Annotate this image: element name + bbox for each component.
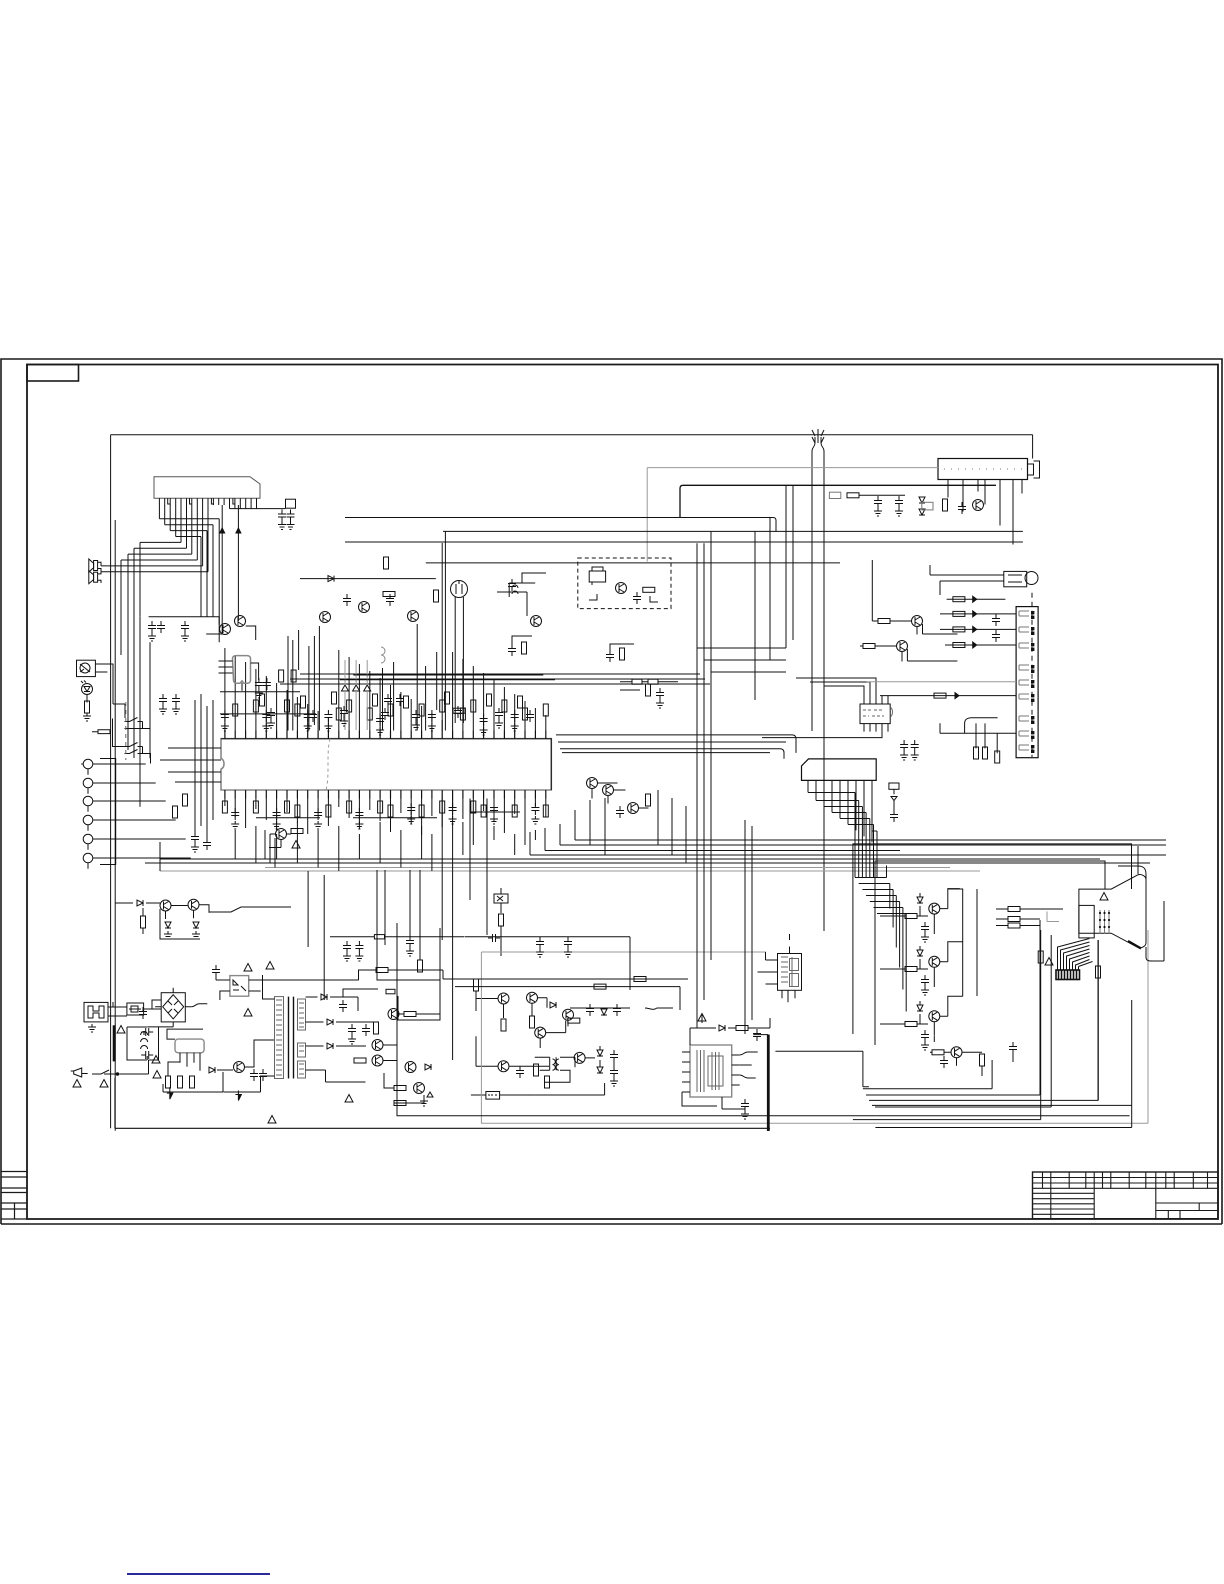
transistor Q311 [897, 641, 908, 652]
wire bus dark right low [875, 1105, 1131, 1127]
transistor Q310 [912, 616, 923, 627]
ground [343, 953, 351, 961]
transistor Q405 [498, 993, 509, 1004]
resistor R408 [568, 1018, 580, 1023]
ground [172, 706, 180, 714]
transistor Q201 [973, 500, 984, 511]
wire [1031, 716, 1034, 719]
resistor R911 [178, 1076, 183, 1088]
ground [348, 1036, 356, 1044]
diode D408 [597, 1067, 603, 1073]
capacitor [511, 710, 519, 722]
transistor Q407 [563, 1009, 574, 1020]
flyback pins [782, 990, 795, 1002]
wire bus rows to CN302 [556, 735, 796, 759]
flyback T902 body [778, 954, 802, 991]
transistor Q204 [359, 602, 370, 613]
wire Q311 [860, 646, 957, 662]
wire [1019, 716, 1029, 721]
speaker SP1 terminals [98, 562, 101, 572]
small box SAW [922, 502, 933, 510]
capacitor C406 [586, 1004, 594, 1016]
wire sound row [465, 937, 630, 990]
diode D301 [165, 922, 171, 928]
zener ZD401 box [494, 894, 508, 903]
ground [376, 727, 384, 735]
ground [159, 706, 167, 714]
diode D303 [137, 900, 143, 906]
capacitor [221, 710, 229, 722]
resistor [460, 708, 465, 720]
wire horizontals midband [220, 675, 555, 714]
capacitor Ca2 [309, 710, 317, 722]
capacitor Ca7 [495, 708, 503, 720]
capacitor C410 [610, 1066, 618, 1078]
ground [449, 816, 457, 824]
capacitor CR [921, 922, 929, 934]
wire long left vertical A [110, 435, 112, 1129]
transistor Q205 [320, 612, 331, 623]
wire bus y517 [345, 518, 776, 532]
resistor R101 [85, 701, 90, 713]
capacitor C905 [212, 965, 220, 977]
RCA jack J6 [83, 853, 93, 863]
battery detail [488, 1094, 497, 1096]
transistor Q901 [234, 1062, 245, 1073]
wire [1031, 632, 1034, 635]
wire supply to small box [230, 508, 286, 510]
vertical trunk x445 [444, 531, 446, 730]
resistor [388, 704, 393, 716]
junction arrow [973, 626, 977, 632]
wire pin rail C [470, 811, 520, 813]
socket teeth [1058, 967, 1079, 971]
wire [1031, 721, 1034, 724]
diode D407 [597, 1050, 603, 1056]
capacitor Ca8 [526, 710, 534, 722]
wire loop vertical stage A [377, 928, 440, 980]
resistor Rl2 [173, 806, 178, 818]
diode D202 [919, 509, 925, 515]
ground [921, 934, 929, 942]
speaker SP2 cone [89, 571, 94, 584]
RCA jack J1 stub [81, 764, 116, 775]
resistor [253, 801, 258, 813]
dashed box VIF [578, 558, 671, 609]
transformer primary wires [224, 975, 275, 1092]
junction arrow [955, 693, 959, 699]
RGB transistor QR [929, 903, 940, 914]
spark gap box [889, 783, 899, 789]
resistor Rb2 [620, 648, 625, 660]
wire to right [388, 970, 443, 979]
transistor Q206 [408, 611, 419, 622]
resistor RG [905, 967, 917, 972]
resistor Ra1 [260, 694, 265, 706]
small box IF input [829, 492, 840, 498]
ground [164, 931, 172, 939]
wire nest verticals [1041, 930, 1098, 1120]
capacitor Ca1 [267, 708, 275, 720]
line filter T901 winding [141, 1032, 148, 1050]
row y613 [940, 613, 1016, 615]
capacitor Cb2 [606, 650, 614, 662]
resistor R317 [953, 627, 965, 632]
LED wire [86, 695, 88, 703]
wire drops below bus [575, 798, 605, 855]
wire flyback top dashes [789, 934, 791, 954]
wire secondary rails [384, 1073, 424, 1103]
resistor-cap row y599 [947, 598, 1006, 600]
LED D221 [342, 685, 349, 691]
secondary wires top [306, 989, 379, 1011]
ground [420, 1098, 428, 1106]
warning triangle [345, 1095, 353, 1103]
wire sparkgap [893, 801, 895, 811]
vertical trunk x442 [441, 543, 443, 731]
wire [1031, 685, 1034, 688]
ground [536, 949, 544, 957]
ground [148, 633, 156, 641]
wire [497, 592, 527, 616]
tuner TU101 [938, 459, 1028, 480]
resistor R920 [394, 1101, 406, 1106]
diode D915 [425, 1064, 431, 1070]
ground [287, 522, 295, 530]
diode D405 [550, 1002, 556, 1008]
transistor Q121 [220, 624, 231, 635]
warning triangle [1045, 958, 1053, 966]
RCA jack J4 stub [88, 820, 116, 831]
resistor [253, 700, 258, 712]
ground [480, 727, 488, 735]
transistor Q408 [535, 1027, 546, 1038]
capacitor C601 [741, 1099, 749, 1111]
resistor R931 [594, 984, 606, 989]
bridge diamond [163, 995, 184, 1019]
footer link line [127, 1573, 270, 1575]
resistor R950 [932, 1050, 944, 1055]
resistor [326, 805, 331, 817]
ground [355, 953, 363, 961]
resistor R201 [847, 493, 859, 498]
staircase horizontals [101, 519, 219, 572]
resistor Rv [1038, 951, 1043, 963]
capacitor [262, 710, 270, 722]
CRT deflection stroke [1128, 941, 1141, 949]
wire IF out loop [680, 485, 996, 517]
IR receiver lens [80, 663, 90, 673]
SAW filter SF201 [233, 656, 251, 684]
resistor [233, 704, 238, 716]
arrow marker [92, 730, 110, 734]
capacitor C951 [1009, 1042, 1017, 1054]
wire [1031, 643, 1034, 646]
ground [407, 816, 415, 824]
switch wires [113, 664, 151, 764]
junction dots [116, 1073, 119, 1076]
resistor Ra8 [518, 696, 523, 708]
wire to transformer [217, 1040, 274, 1070]
capacitor C318 [900, 740, 908, 752]
long bus below IC 1 [575, 839, 1166, 841]
transformer core [289, 997, 294, 1079]
wire verticals midband [288, 624, 437, 731]
ground [314, 821, 322, 829]
diode DR [917, 897, 923, 903]
capacitor [314, 808, 322, 820]
resistor [481, 805, 486, 817]
node arrow down wire A [222, 505, 238, 624]
sound transformer T401 [550, 1057, 559, 1070]
resistor [222, 801, 227, 813]
ground [741, 1111, 749, 1119]
secondary diode D910 [321, 994, 327, 1000]
resistor [285, 801, 290, 813]
resistor Rv2 [1096, 966, 1101, 978]
capacitor C917 [139, 1007, 147, 1019]
resistor R203 [943, 499, 948, 511]
wire opto right [249, 970, 377, 991]
wire [471, 1094, 535, 1096]
resistor Ra7 [487, 694, 492, 706]
resistor Ra3 [332, 692, 337, 704]
frame corner box top-left [27, 365, 79, 382]
bottom IC U601 body [690, 1045, 732, 1097]
long bus below IC 2 [560, 844, 1166, 846]
wire QG [880, 942, 963, 987]
capacitor Cl2 [203, 838, 211, 850]
vertical trunk pair below IC [442, 799, 487, 1061]
RCA jack block frame [100, 759, 116, 865]
wire [982, 1042, 1013, 1076]
transistor Q406 [527, 992, 538, 1003]
wire top feed to tuner [1032, 435, 1034, 459]
capacitor C319 [911, 740, 919, 752]
wire degauss feed [930, 565, 1004, 595]
long bus gray 7 [265, 867, 950, 869]
long bus below IC 4 [530, 854, 1166, 856]
wire connector verticals to fan [808, 793, 877, 878]
wire [1031, 731, 1034, 734]
fuse symbol [129, 1006, 141, 1012]
resistor Rm1 [418, 960, 423, 972]
wire [1019, 745, 1029, 750]
wire RGB collectors [948, 889, 977, 996]
resistor R310 [878, 619, 890, 624]
resistor R430 [646, 794, 651, 806]
capacitor CB [921, 1030, 929, 1042]
junction arrow [973, 642, 977, 648]
wire [221, 739, 551, 790]
wire fuse to bridge [144, 1000, 162, 1009]
flyback inner box [790, 959, 799, 971]
ground [911, 752, 919, 760]
wire QR [880, 889, 960, 934]
coil T201 detail [592, 567, 603, 585]
capacitor Ca6 [454, 706, 462, 718]
CRT socket connector [1056, 970, 1080, 980]
resistor RCRT1 [1008, 907, 1020, 912]
capacitor cluster C214 [343, 594, 351, 606]
resistor R216 [384, 557, 389, 569]
capacitor C950 [940, 1056, 948, 1068]
resistor Rb3 [646, 684, 651, 696]
capacitor C222 [263, 678, 271, 690]
resistor R912 [190, 1076, 195, 1088]
wire antenna feed [812, 437, 824, 931]
AC inlet contacts [88, 1006, 104, 1018]
resistor R315 [953, 597, 965, 602]
wire [1019, 627, 1029, 632]
capacitor C911 [339, 1000, 347, 1012]
row y645 [945, 644, 1016, 646]
ground [564, 949, 572, 957]
optocoupler U902 [230, 976, 249, 997]
capacitor C908 [259, 1069, 267, 1081]
IR receiver wires [95, 664, 113, 672]
socket hatch [1059, 970, 1077, 980]
warning triangle [698, 1014, 706, 1022]
sheet bottom edge [1, 1223, 1222, 1225]
wires transistor pair [115, 903, 209, 939]
ground [900, 752, 908, 760]
resistor R410 [534, 1064, 539, 1076]
capacitor C403 [355, 941, 363, 953]
capacitor C932 [564, 937, 572, 949]
wire opto left [216, 975, 230, 1000]
ground [231, 821, 239, 829]
diode DG [917, 950, 923, 956]
ground [267, 720, 275, 728]
transistor Q422 [603, 785, 614, 796]
capacitor C931 [536, 937, 544, 949]
wire pin rail A [256, 817, 320, 819]
wire top long horizontal [111, 434, 1033, 436]
crystal X201 circle [451, 581, 468, 598]
ground [255, 690, 263, 698]
capacitor C602 [753, 1029, 761, 1041]
resistor R301 [141, 916, 146, 928]
wire IC601 out [740, 1052, 758, 1078]
wire [509, 573, 546, 583]
capacitor Cl1 [191, 832, 199, 844]
long bus below IC 6 [145, 862, 1150, 864]
wire [476, 991, 547, 1018]
secondary diode D911 [327, 1019, 333, 1025]
capacitor C901 [141, 1028, 153, 1036]
resistor [419, 805, 424, 817]
vertical trunk x308 [307, 871, 309, 947]
ground [192, 931, 200, 939]
warning triangle [73, 1080, 81, 1088]
resistor Ra4 [373, 694, 378, 706]
EEPROM pins bottom [864, 724, 888, 732]
wire EEPROM bus [762, 678, 882, 738]
wire CRT anode feed [1137, 846, 1139, 874]
title block right cells [1156, 1203, 1218, 1219]
wire [500, 926, 502, 956]
wire [399, 979, 440, 1014]
resistor R910 [166, 1076, 171, 1088]
wire cluster [540, 1020, 568, 1048]
ground [921, 987, 929, 995]
wire harness right [1118, 866, 1164, 961]
CRT pin dots [1099, 912, 1110, 928]
long bus below IC 5 [160, 858, 1100, 860]
capacitor C122 [157, 621, 165, 633]
transistor Q302 [188, 899, 199, 910]
capacitor C203 [895, 496, 903, 508]
wire nest bottoms [853, 1107, 1051, 1120]
optocoupler diodes [233, 980, 246, 991]
capacitor C221 [255, 678, 263, 690]
title block outline [1033, 1172, 1219, 1219]
diode D302 [193, 922, 199, 928]
resistor [440, 700, 445, 712]
wire STR bottom rail [163, 1072, 223, 1092]
wire y562 branch [426, 562, 840, 564]
resistor [419, 704, 424, 716]
capacitor row bottom C126 [159, 694, 167, 706]
capacitor [490, 803, 498, 815]
resistor [347, 700, 352, 712]
bus verticals descending [121, 519, 219, 655]
warning triangle [1100, 893, 1108, 901]
wire [1031, 694, 1034, 697]
sheet outer border [1, 359, 1222, 1224]
resistor [523, 708, 528, 720]
wire staircase to sound [209, 907, 291, 912]
drawing inner frame [27, 365, 1218, 1220]
wire [930, 1052, 982, 1066]
ground [278, 522, 286, 530]
wires below IC pins [225, 799, 546, 836]
big box loop around RGB [853, 844, 1132, 1034]
resistor box 2 [648, 679, 658, 684]
capacitor C212 [508, 579, 516, 591]
ground [412, 722, 420, 730]
row y629 [940, 628, 1016, 630]
junction arrow [973, 596, 977, 602]
diode arrow mark [427, 1092, 433, 1097]
resistor RR [905, 914, 917, 919]
capacitor [407, 803, 415, 815]
RGB transistor QB [929, 1011, 940, 1022]
capacitor C914 [362, 1024, 370, 1036]
resistor R215 [434, 590, 439, 602]
LED D222 [353, 685, 360, 691]
STR pins [180, 1053, 200, 1071]
wire branch [697, 648, 786, 672]
capacitor C127 [172, 694, 180, 706]
capacitor C407 [613, 1004, 621, 1016]
RCA jack J5 [83, 834, 93, 844]
diode D203 [328, 576, 334, 582]
capacitor C202 [874, 496, 882, 508]
speaker SP1 [94, 561, 98, 571]
resistor R405 [474, 979, 479, 991]
zener symbol [497, 888, 503, 913]
capacitor C315 [992, 614, 1000, 626]
wire below IC to bus [235, 822, 535, 871]
capacitor C330 [890, 810, 898, 822]
LED leads gray [345, 660, 367, 730]
ground [406, 948, 414, 956]
bridge rectifier D901 [161, 993, 185, 1022]
IR receiver detail [80, 664, 90, 672]
warning triangle [100, 1080, 108, 1088]
